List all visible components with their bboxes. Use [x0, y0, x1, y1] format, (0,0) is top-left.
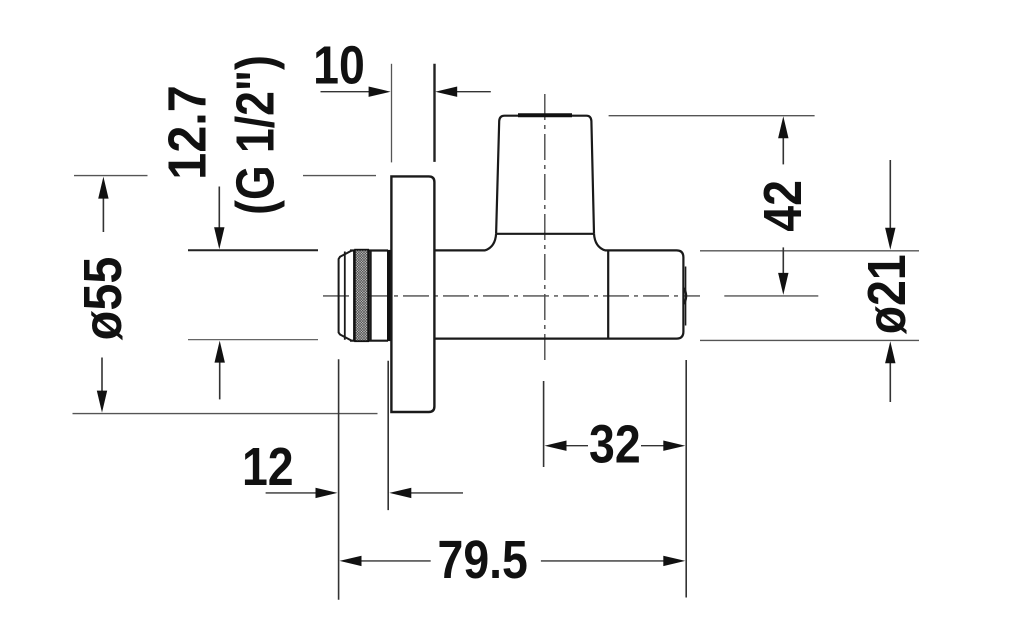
knob collar line: [370, 251, 372, 341]
horizontal centerline (axis): [323, 295, 700, 297]
svg-text:ø55: ø55: [72, 257, 133, 341]
body-bottom level line (left): [188, 339, 318, 341]
knob base thick band: [387, 250, 392, 341]
svg-text:ø21: ø21: [856, 254, 917, 334]
flange-top level line, right segment: [303, 175, 376, 177]
flange-bottom level line: [73, 413, 378, 415]
10 dim line left w/ arrow: [321, 91, 371, 93]
12.7 up arrow: [219, 360, 221, 399]
svg-text:12: 12: [242, 436, 294, 497]
svg-text:(G 1/2"): (G 1/2"): [226, 55, 286, 215]
flange right face ext: [433, 64, 435, 162]
flange-top level line, left segment: [74, 175, 148, 177]
body-top level line (left): [188, 249, 318, 251]
flange-left ext: [387, 361, 389, 510]
ø21 down arrow: [889, 160, 891, 231]
outlet-end ext: [685, 360, 687, 598]
outlet separation line: [607, 250, 609, 338]
knob top edge: [350, 249, 388, 251]
outlet end inner contour: [685, 267, 687, 326]
pipe-top level line: [609, 115, 815, 117]
knob-left ext: [338, 359, 340, 600]
horizontal body outline: [434, 250, 683, 338]
32 right arrow: [641, 445, 664, 447]
inlet pipe (top, tapered with flare): [485, 116, 605, 251]
12 dim line left w/ arrow: [266, 492, 317, 494]
svg-text:10: 10: [313, 34, 365, 95]
vertical centerline (inlet axis): [544, 94, 546, 363]
outlet end bulge: [684, 288, 686, 304]
79.5 left arrow: [360, 560, 431, 562]
ø21 up arrow: [889, 360, 891, 402]
body-top level line (right): [700, 250, 919, 252]
10 dim line right w/ arrow: [457, 91, 491, 93]
axis level ext line: [724, 295, 818, 297]
ø55 up arrow: [102, 196, 104, 232]
flange left face ext: [391, 64, 393, 163]
knurled band: [354, 250, 369, 342]
32 left arrow: [566, 445, 588, 447]
knob cap: [339, 251, 352, 341]
svg-text:12.7: 12.7: [156, 85, 217, 180]
12 dim line right w/ arrow: [410, 492, 463, 494]
inlet pipe thick top rim: [518, 113, 572, 117]
body-bottom level line (right): [700, 339, 919, 341]
79.5 right arrow: [541, 560, 664, 562]
svg-text:32: 32: [589, 413, 641, 474]
knob cap face line: [344, 252, 346, 340]
12.7 down arrow: [218, 187, 220, 231]
42 up arrow: [782, 135, 784, 164]
ø55 down arrow: [101, 358, 103, 394]
42 down arrow: [782, 247, 784, 276]
axis ext for 32: [543, 381, 545, 467]
knob bottom edge: [350, 340, 388, 342]
svg-text:42: 42: [752, 180, 813, 232]
svg-text:79.5: 79.5: [438, 529, 528, 590]
